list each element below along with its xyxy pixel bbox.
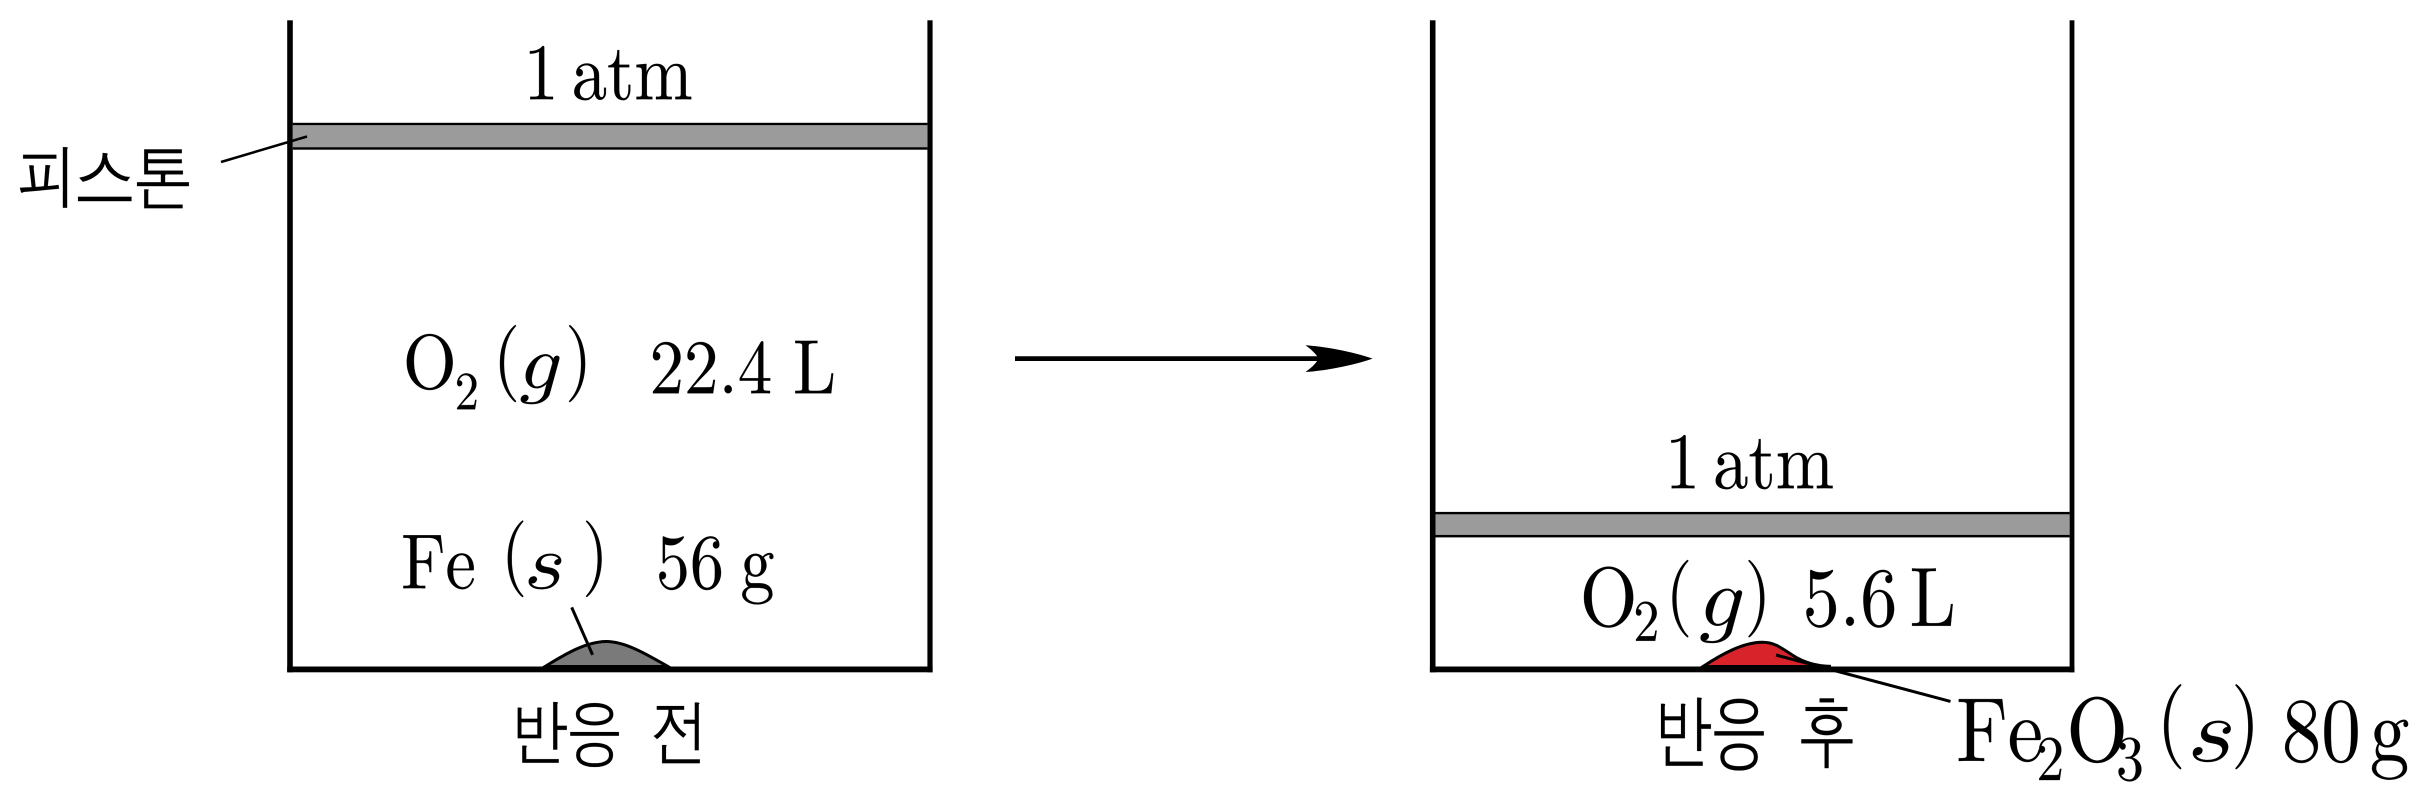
container 1 left wall [287,20,293,672]
caption 반응 전 (before reaction) [518,702,700,767]
leader line to Fe2O3 label [1776,655,1951,701]
text O2(g) 22.4L [407,325,833,409]
caption 반응 후 (after reaction) [1661,698,1853,771]
piston 1 plate [293,125,928,147]
Fe2O3 solid mound [1703,642,1831,666]
leader line to Fe mound [572,607,593,655]
text O2(g) 5.6L [1584,560,1953,643]
leader line to piston [221,137,307,163]
text Fe(s) 56g [403,521,773,605]
container 2 left wall [1430,20,1436,672]
piston 1 bottom edge [293,147,928,150]
text 1 atm (right) [1671,435,1832,489]
piston 1 top edge [293,123,928,126]
container 1 bottom [287,667,932,673]
text Fe2O3(s) 80g [1959,684,2408,781]
reaction arrow [1015,345,1373,372]
container 2 right wall [2070,20,2075,672]
label 피스톤 (piston) [20,147,189,208]
container 1 right wall [927,20,932,672]
piston 2 top edge [1436,512,2070,515]
container 2 bottom [1430,667,2074,673]
Fe solid mound [545,641,668,666]
text 1 atm (left) [530,46,691,100]
piston 2 plate [1436,514,2070,535]
piston 2 bottom edge [1436,535,2070,538]
